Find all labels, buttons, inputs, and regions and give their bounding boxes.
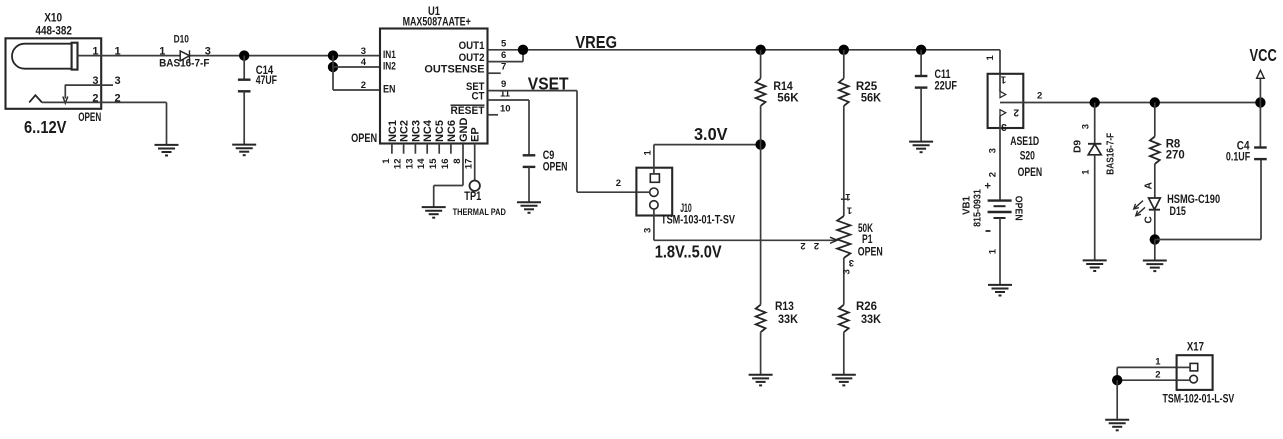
svg-text:3: 3: [1080, 124, 1091, 129]
svg-text:D15: D15: [1170, 206, 1187, 218]
svg-text:16: 16: [440, 159, 451, 170]
svg-text:NC4: NC4: [422, 119, 434, 142]
svg-text:RESET: RESET: [451, 105, 485, 117]
svg-text:IN1: IN1: [383, 49, 396, 61]
svg-text:P1: P1: [862, 234, 873, 246]
svg-text:448-382: 448-382: [36, 25, 72, 37]
svg-text:OUT2: OUT2: [459, 52, 485, 64]
svg-text:3: 3: [849, 257, 854, 268]
svg-text:5: 5: [501, 38, 507, 49]
svg-text:OUT1: OUT1: [459, 40, 485, 52]
svg-text:NC5: NC5: [434, 120, 446, 142]
svg-text:IN2: IN2: [383, 61, 396, 73]
svg-text:2: 2: [988, 172, 999, 177]
svg-text:3: 3: [842, 269, 853, 274]
svg-text:TSM-103-01-T-SV: TSM-103-01-T-SV: [661, 215, 735, 227]
svg-text:TSM-102-01-L-SV: TSM-102-01-L-SV: [1163, 394, 1235, 406]
svg-text:22UF: 22UF: [935, 81, 958, 93]
svg-text:+: +: [985, 181, 991, 193]
svg-text:OUTSENSE: OUTSENSE: [424, 64, 484, 76]
svg-text:1: 1: [92, 46, 98, 58]
svg-text:OPEN: OPEN: [1018, 167, 1043, 179]
svg-text:33K: 33K: [778, 314, 799, 326]
svg-text:S20: S20: [1020, 151, 1035, 163]
svg-text:1: 1: [159, 45, 165, 57]
svg-text:15: 15: [428, 158, 439, 169]
svg-text:NC3: NC3: [410, 120, 422, 142]
svg-text:1: 1: [988, 248, 999, 254]
svg-text:C11: C11: [935, 69, 951, 81]
svg-text:D9: D9: [1072, 140, 1084, 153]
svg-text:1: 1: [985, 55, 996, 61]
svg-text:17: 17: [464, 159, 475, 170]
svg-text:R14: R14: [773, 81, 793, 93]
svg-text:6: 6: [501, 50, 506, 61]
svg-text:0.1UF: 0.1UF: [1226, 151, 1250, 163]
svg-text:CT: CT: [472, 90, 485, 102]
svg-text:2: 2: [616, 178, 621, 189]
svg-text:VREG: VREG: [575, 32, 617, 52]
svg-text:MAX5087AATE+: MAX5087AATE+: [403, 17, 471, 29]
svg-text:R25: R25: [856, 81, 878, 93]
svg-text:NC1: NC1: [387, 120, 399, 142]
svg-text:13: 13: [404, 159, 415, 170]
svg-text:3: 3: [988, 148, 999, 153]
svg-text:3: 3: [643, 228, 654, 233]
svg-text:TP1: TP1: [464, 191, 481, 203]
svg-text:C: C: [1143, 216, 1154, 223]
svg-text:R26: R26: [856, 301, 877, 313]
svg-text:2: 2: [1037, 90, 1042, 101]
svg-text:8: 8: [452, 159, 463, 164]
svg-text:1: 1: [1000, 74, 1006, 85]
svg-text:2: 2: [1155, 369, 1160, 380]
svg-text:2: 2: [115, 93, 121, 105]
svg-text:OPEN: OPEN: [1013, 196, 1025, 221]
svg-text:1: 1: [643, 150, 654, 156]
svg-text:EN: EN: [383, 84, 396, 96]
svg-text:OPEN: OPEN: [543, 162, 568, 174]
svg-text:HSMG-C190: HSMG-C190: [1167, 194, 1220, 206]
svg-text:1: 1: [846, 205, 852, 216]
svg-text:A: A: [1143, 182, 1154, 189]
svg-text:1: 1: [381, 158, 392, 164]
svg-text:3: 3: [205, 45, 211, 57]
svg-text:VSET: VSET: [528, 74, 569, 94]
svg-text:56K: 56K: [861, 93, 882, 105]
svg-text:J10: J10: [680, 203, 692, 215]
svg-text:BAS16-7-F: BAS16-7-F: [1105, 132, 1117, 174]
svg-text:OPEN: OPEN: [78, 112, 101, 124]
svg-text:OPEN: OPEN: [351, 133, 377, 145]
svg-text:3.0V: 3.0V: [694, 124, 728, 144]
svg-text:2: 2: [361, 80, 366, 91]
svg-text:D10: D10: [174, 34, 189, 46]
svg-text:R13: R13: [775, 301, 794, 313]
svg-text:3: 3: [92, 75, 98, 87]
svg-text:2: 2: [92, 93, 98, 105]
svg-text:1: 1: [845, 191, 851, 202]
svg-text:OPEN: OPEN: [858, 247, 883, 259]
svg-text:7: 7: [501, 62, 506, 73]
svg-text:THERMAL PAD: THERMAL PAD: [453, 207, 507, 217]
svg-text:47UF: 47UF: [256, 75, 277, 87]
svg-text:3: 3: [1001, 121, 1007, 132]
svg-text:3: 3: [361, 46, 366, 57]
svg-text:NC6: NC6: [446, 120, 458, 142]
svg-text:10: 10: [500, 103, 511, 114]
svg-text:1: 1: [1155, 357, 1161, 368]
svg-text:270: 270: [1166, 150, 1185, 162]
svg-text:1: 1: [115, 46, 121, 58]
svg-text:NC2: NC2: [399, 120, 411, 142]
svg-text:X10: X10: [44, 12, 62, 24]
svg-text:C9: C9: [543, 150, 555, 162]
svg-text:ASE1D: ASE1D: [1010, 136, 1039, 148]
svg-text:2: 2: [800, 240, 805, 251]
svg-text:14: 14: [416, 158, 427, 169]
svg-text:GND: GND: [458, 118, 470, 143]
svg-text:815-0931: 815-0931: [972, 189, 984, 227]
svg-text:VCC: VCC: [1250, 45, 1278, 65]
svg-text:BAS16-7-F: BAS16-7-F: [159, 57, 210, 69]
svg-text:4: 4: [361, 57, 367, 68]
svg-text:EP: EP: [470, 127, 482, 142]
svg-text:3: 3: [115, 75, 121, 87]
svg-text:12: 12: [393, 159, 404, 170]
svg-text:6..12V: 6..12V: [24, 117, 67, 137]
svg-text:2: 2: [814, 240, 819, 251]
svg-text:2: 2: [1013, 107, 1019, 118]
svg-text:33K: 33K: [861, 314, 882, 326]
svg-text:56K: 56K: [777, 93, 799, 105]
svg-text:1.8V..5.0V: 1.8V..5.0V: [655, 242, 722, 262]
svg-text:X17: X17: [1187, 342, 1204, 354]
svg-text:1: 1: [1080, 169, 1091, 175]
